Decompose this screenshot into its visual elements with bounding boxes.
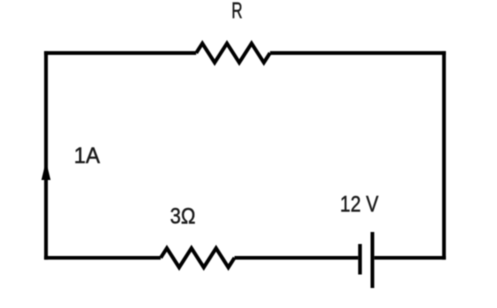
battery B1 negative plate (short)	[358, 244, 362, 275]
resistor 3Ω	[161, 248, 235, 267]
wire bottom-left segment	[44, 256, 161, 260]
svg-text:3Ω: 3Ω	[170, 203, 196, 228]
resistor R	[196, 43, 270, 62]
wire right side	[442, 51, 446, 259]
wire left side	[44, 51, 48, 259]
battery B1 positive plate (long)	[371, 232, 375, 288]
wire bottom-middle segment (resistor to battery)	[235, 256, 359, 260]
wire top-left segment	[44, 51, 196, 55]
svg-text:R: R	[232, 0, 243, 23]
wire top-right segment	[270, 51, 446, 55]
svg-text:12 V: 12 V	[340, 192, 379, 217]
svg-text:1A: 1A	[74, 143, 100, 168]
current direction arrow (1A, upward)	[41, 161, 50, 180]
wire bottom-right segment (battery to right corner)	[374, 256, 446, 260]
